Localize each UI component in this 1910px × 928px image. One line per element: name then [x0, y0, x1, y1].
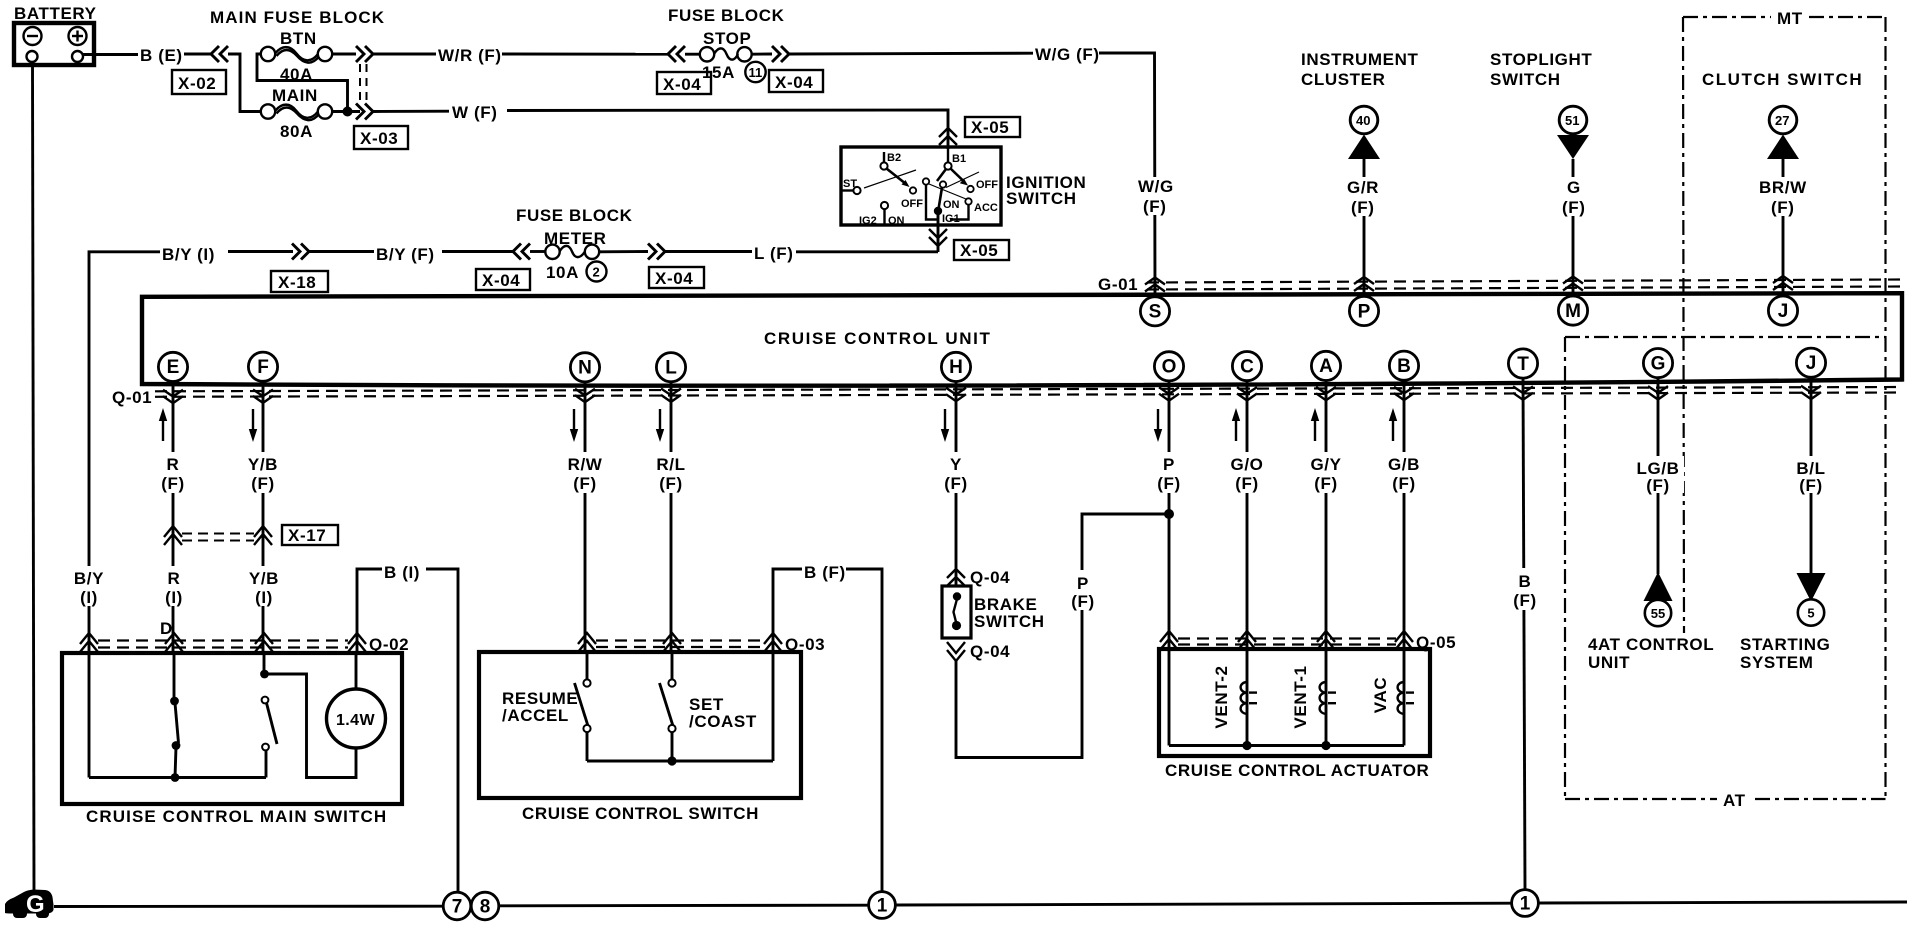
connector X-04 label right [649, 267, 704, 288]
pin O [1154, 352, 1183, 381]
svg-text:BTN: BTN [280, 29, 317, 48]
SECTION: main switch [62, 560, 458, 891]
svg-text:Q-01: Q-01 [112, 388, 152, 407]
node IG1 [934, 207, 960, 225]
svg-text:OFF: OFF [976, 179, 998, 191]
SECTION: columns below unit [69, 260, 1834, 890]
ground [5, 890, 54, 919]
svg-text:(I): (I) [165, 588, 183, 607]
svg-text:L: L [665, 358, 677, 379]
svg-text:OFF: OFF [901, 198, 923, 210]
svg-text:X-04: X-04 [482, 271, 520, 290]
MT box dash-dot [1683, 9, 1886, 633]
wire B(E) to fuses [228, 54, 261, 112]
contact mid-left [923, 178, 929, 184]
svg-text:G/O: G/O [1231, 455, 1264, 474]
svg-text:(F): (F) [1235, 474, 1259, 493]
pin C [1232, 352, 1261, 381]
node P (F) label [1153, 452, 1185, 493]
node B(I) label [382, 560, 426, 582]
node G/Y (F) label [1307, 452, 1346, 493]
svg-text:IG1: IG1 [942, 213, 960, 225]
SECTION: brake switch [942, 514, 1169, 758]
svg-text:(F): (F) [161, 474, 185, 493]
arrow down N [570, 409, 578, 442]
svg-text:G/Y: G/Y [1310, 455, 1341, 474]
brake switch contacts [952, 592, 961, 630]
arrow up B [1389, 408, 1397, 441]
wire actuator bus [1169, 744, 1404, 747]
connector X-04 label left [657, 72, 711, 94]
wire B/Y(I) corner [89, 252, 162, 260]
node W(F) label [449, 101, 507, 122]
pin J bottom [1796, 348, 1825, 377]
wire to L(F) [665, 250, 754, 253]
connector Q-04 chevron bottom [947, 642, 965, 661]
node R/W (F) label [566, 452, 605, 493]
SECTION: right top columns [1098, 9, 1902, 633]
node B(E) label [138, 44, 184, 65]
svg-text:MAIN FUSE BLOCK: MAIN FUSE BLOCK [210, 8, 385, 27]
SECTION: cruise switch [479, 560, 882, 891]
node R/L (F) label [652, 452, 691, 493]
svg-text:CLUSTER: CLUSTER [1301, 70, 1385, 89]
connector chevron H at Q-01 [946, 388, 966, 401]
svg-text:8: 8 [480, 897, 491, 918]
node W/G(F) label [1033, 43, 1100, 64]
wire O into actuator [1168, 651, 1171, 746]
svg-text:(F): (F) [573, 474, 597, 493]
connector chevron A at Q-01 [1316, 387, 1336, 400]
svg-text:(I): (I) [255, 588, 273, 607]
wire BTN output [332, 53, 356, 56]
wire brake switch to P line [956, 610, 1082, 758]
arrow down O [1154, 409, 1162, 442]
terminal IG2 [859, 202, 905, 227]
svg-text:ON: ON [888, 215, 905, 227]
pin N [570, 353, 599, 382]
cruise control actuator box [1159, 649, 1430, 756]
svg-text:X-04: X-04 [775, 73, 813, 92]
svg-text:4AT CONTROL: 4AT CONTROL [1588, 635, 1714, 654]
wire B/Y inside box [88, 653, 91, 778]
label IGNITION SWITCH [1006, 173, 1086, 208]
fuse BTN 40A [261, 29, 332, 84]
pin G [1643, 349, 1672, 378]
fuse number 11 [745, 62, 765, 82]
wire W/R to label [373, 53, 438, 56]
node G/B (F) label [1385, 452, 1424, 493]
harness Q-05 dashed [1178, 637, 1396, 639]
svg-text:VENT-2: VENT-2 [1212, 665, 1231, 728]
connector chevron J at Q-01 [1801, 386, 1821, 399]
junction node [343, 107, 353, 117]
svg-text:MAIN: MAIN [272, 86, 318, 105]
wire ON path [926, 185, 938, 220]
guide line B1 fan [929, 184, 966, 199]
svg-text:(F): (F) [1646, 476, 1670, 495]
node L(F) label [752, 241, 796, 263]
wire battery negative to ground [33, 65, 35, 894]
contact ACC [965, 198, 998, 214]
svg-text:B (F): B (F) [804, 563, 846, 582]
guide line B2 area [864, 170, 916, 188]
wire pin J down [1810, 377, 1813, 574]
terminal ST [841, 178, 861, 194]
wire B(F) into box [772, 652, 775, 761]
node W/G (F) column label [1136, 177, 1176, 216]
svg-text:N: N [578, 358, 592, 379]
connector chevron B at Q-01 [1394, 387, 1414, 400]
junction node VENT-2 [1242, 741, 1251, 750]
svg-text:B: B [1397, 356, 1411, 377]
svg-text:X-05: X-05 [971, 118, 1009, 137]
svg-text:55: 55 [1651, 606, 1665, 621]
svg-text:(F): (F) [659, 474, 683, 493]
wire IG1 down [937, 211, 940, 252]
svg-text:STARTING: STARTING [1740, 635, 1830, 654]
pin M [1558, 296, 1587, 325]
svg-text:SWITCH: SWITCH [1006, 189, 1077, 208]
switch SET/COAST [660, 652, 757, 761]
connector X-03 chevron lower [356, 104, 373, 120]
SECTION: cruise control unit [112, 293, 1902, 407]
wire pin N down [584, 382, 587, 652]
wire pin C down [1246, 380, 1249, 684]
svg-text:BATTERY: BATTERY [14, 4, 97, 23]
svg-text:X-18: X-18 [278, 273, 316, 292]
terminal B1 [944, 147, 966, 170]
stoplight switch [1490, 50, 1592, 296]
connector chevron left [513, 244, 530, 260]
svg-text:E: E [167, 357, 180, 378]
harness Q-03 dashed [596, 639, 764, 641]
starting system arrow [1740, 573, 1830, 672]
svg-text:2: 2 [593, 265, 600, 280]
connector chevron B/Y at Q-02 [80, 633, 98, 652]
pin F [248, 352, 277, 381]
wire W(F) from X-03 [373, 110, 451, 113]
svg-text:R/L: R/L [656, 455, 685, 474]
svg-text:H: H [949, 357, 963, 378]
blade B2 to OFF [887, 169, 924, 211]
contact under B1 [940, 181, 946, 187]
svg-text:SWITCH: SWITCH [1490, 70, 1561, 89]
connector chevron BR/W at G-01 [1773, 276, 1793, 290]
wire P branch from junction [1082, 514, 1169, 570]
svg-text:Q-04: Q-04 [970, 642, 1010, 661]
coil VAC [1371, 677, 1414, 746]
connector circle 8 [471, 892, 499, 920]
connector X-05 chevron bottom [929, 229, 947, 246]
connector chevron C at Q-01 [1237, 387, 1257, 400]
pin L [656, 353, 685, 382]
connector chevron F at Q-01 [253, 390, 273, 403]
connector chevron O at Q-05 [1160, 631, 1178, 650]
svg-text:F: F [257, 357, 269, 378]
svg-text:AT: AT [1723, 791, 1746, 810]
svg-text:G/B: G/B [1388, 455, 1420, 474]
wire pin E down [172, 381, 175, 653]
pin A [1311, 351, 1340, 380]
connector chevron L at Q-03 [663, 633, 681, 652]
svg-text:B/Y (I): B/Y (I) [162, 245, 215, 264]
svg-text:C: C [1240, 356, 1254, 377]
svg-text:G-01: G-01 [1098, 275, 1138, 294]
svg-text:CRUISE CONTROL ACTUATOR: CRUISE CONTROL ACTUATOR [1165, 761, 1429, 780]
blade B1 to OFF right [951, 169, 999, 193]
arrow up A [1311, 408, 1319, 441]
4AT control unit arrow [1588, 572, 1714, 672]
connector circle 7 [443, 892, 471, 920]
connector chevron right [772, 46, 789, 62]
coil VENT-2 [1212, 665, 1257, 745]
wire B(I) right branch to circle 7 [426, 569, 458, 891]
svg-text:CLUTCH SWITCH: CLUTCH SWITCH [1702, 70, 1863, 89]
svg-text:Y/B: Y/B [249, 569, 279, 588]
svg-text:G: G [1567, 178, 1581, 197]
wire bus mid [499, 904, 868, 907]
node B/L (F) label [1788, 456, 1834, 495]
node G/O (F) label [1228, 452, 1267, 493]
connector chevron right [648, 244, 665, 260]
connector circle 1 left [869, 892, 896, 919]
wire fuse to chevron [599, 250, 648, 253]
connector X-03 label [354, 126, 408, 149]
svg-text:X-03: X-03 [360, 129, 398, 148]
blade to IG1 [939, 188, 943, 210]
wire B(E) to connector [184, 53, 212, 56]
node B/Y(F) label [374, 243, 442, 264]
svg-text:B (I): B (I) [384, 563, 420, 582]
wire L(F) to ignition [796, 250, 938, 253]
pin P [1349, 296, 1378, 325]
connector chevron T at Q-01 [1513, 386, 1533, 399]
svg-text:SYSTEM: SYSTEM [1740, 653, 1814, 672]
SECTION: meter fuse row [89, 206, 938, 292]
svg-text:1: 1 [877, 896, 888, 917]
cruise control main switch box [62, 653, 402, 804]
ignition switch box [841, 147, 1001, 225]
svg-text:CRUISE CONTROL MAIN SWITCH: CRUISE CONTROL MAIN SWITCH [86, 807, 387, 826]
harness G-01 dashed lines [1147, 280, 1902, 283]
svg-text:M: M [1565, 301, 1581, 322]
svg-text:5: 5 [1807, 606, 1814, 621]
arrow down H [941, 409, 949, 442]
connector X-05 chevron top [939, 128, 957, 145]
SECTION: at-box [1565, 337, 1886, 810]
connector X-04 label right [769, 70, 823, 92]
svg-text:40: 40 [1356, 113, 1370, 128]
connector chevron B at Q-05 [1395, 631, 1413, 650]
svg-text:27: 27 [1775, 113, 1789, 128]
wire pin F down [262, 381, 265, 653]
wire pin B down [1403, 380, 1406, 684]
connector X-17 chevron R [164, 526, 182, 545]
node B/Y(I) label [160, 243, 228, 264]
connector chevron G at Q-01 [1648, 386, 1668, 399]
svg-text:B1: B1 [952, 153, 966, 165]
AT box dash-dot [1565, 337, 1886, 810]
connector chevron left [668, 46, 685, 62]
svg-text:/ACCEL: /ACCEL [502, 706, 569, 725]
svg-text:A: A [1319, 356, 1333, 377]
svg-text:X-04: X-04 [663, 75, 701, 94]
wire W/R label to stop fuse [502, 53, 668, 56]
svg-text:Q-04: Q-04 [970, 568, 1010, 587]
node B/Y (I) label [69, 566, 109, 607]
svg-text:W/G (F): W/G (F) [1035, 45, 1100, 64]
svg-text:B2: B2 [887, 152, 901, 164]
svg-text:(F): (F) [1562, 198, 1586, 217]
svg-text:R: R [167, 455, 180, 474]
connector chevron O at Q-01 [1159, 387, 1179, 400]
connector X-17 chevron Y/B [254, 526, 272, 545]
connector X-17 dashed [182, 533, 254, 535]
node Y/B (F) label [244, 452, 283, 493]
connector chevron W/G at G-01 [1145, 278, 1165, 292]
wire pin G down [1657, 377, 1660, 574]
svg-text:X-04: X-04 [655, 269, 693, 288]
svg-text:(F): (F) [1071, 592, 1095, 611]
connector chevron L at Q-01 [661, 389, 681, 402]
wire bus mid-right [896, 903, 1512, 905]
svg-text:(F): (F) [944, 474, 968, 493]
svg-text:(F): (F) [1157, 474, 1181, 493]
connector chevron C at Q-05 [1238, 631, 1256, 650]
svg-text:SWITCH: SWITCH [974, 612, 1045, 631]
junction node bus [667, 756, 676, 765]
wire [530, 250, 546, 253]
connector chevron G/R at G-01 [1354, 277, 1374, 291]
svg-text:CRUISE CONTROL SWITCH: CRUISE CONTROL SWITCH [522, 804, 759, 823]
cruise control switch box [479, 652, 801, 798]
connector X-02 label [172, 70, 226, 94]
svg-text:(F): (F) [1351, 198, 1375, 217]
svg-text:/COAST: /COAST [689, 712, 757, 731]
svg-text:STOP: STOP [703, 29, 751, 48]
svg-text:(F): (F) [1314, 474, 1338, 493]
wire internal bus left [89, 776, 266, 779]
connector X-04 label left [476, 269, 530, 290]
svg-text:B/Y (F): B/Y (F) [376, 245, 435, 264]
svg-text:51: 51 [1565, 113, 1579, 128]
junction node VENT-1 [1321, 741, 1330, 750]
fuse STOP 15A [700, 47, 752, 82]
wire pin O down [1168, 381, 1171, 651]
connector chevron Y/B at Q-02 [255, 633, 273, 652]
arrow up C [1232, 408, 1240, 441]
SECTION: stop fuse row [657, 6, 1155, 297]
node W/R(F) label [436, 44, 502, 65]
svg-text:W/R (F): W/R (F) [438, 46, 502, 65]
connector X-18 chevron [292, 244, 309, 260]
wire ground bus left [54, 905, 443, 908]
svg-text:INSTRUMENT: INSTRUMENT [1301, 50, 1418, 69]
svg-text:MT: MT [1777, 9, 1803, 28]
switch R contacts [170, 653, 180, 782]
connector X-05 label top [965, 117, 1020, 137]
wire B(E) from battery [83, 53, 140, 56]
wire to fuse [685, 53, 700, 56]
connector X-18 label [271, 271, 328, 292]
battery [14, 4, 97, 65]
svg-text:B: B [1519, 572, 1532, 591]
svg-text:S: S [1149, 302, 1162, 323]
svg-text:P: P [1163, 455, 1175, 474]
svg-text:O: O [1162, 357, 1177, 378]
connector X-05 label bottom [954, 240, 1009, 260]
svg-text:UNIT: UNIT [1588, 653, 1630, 672]
connector X-03 chevron upper [356, 46, 373, 62]
node P (F) label x1082 [1066, 568, 1098, 611]
svg-text:(F): (F) [1392, 474, 1416, 493]
node R (F) label [155, 452, 192, 493]
svg-text:VENT-1: VENT-1 [1291, 665, 1310, 728]
wire B(I) [357, 569, 384, 653]
svg-text:11: 11 [749, 65, 763, 80]
svg-text:FUSE BLOCK: FUSE BLOCK [516, 206, 633, 225]
clutch switch [1702, 70, 1863, 296]
node LG/B (F) label [1632, 456, 1684, 495]
svg-text:Y: Y [950, 455, 962, 474]
svg-text:ON: ON [943, 199, 960, 211]
connector circle 1 right [1512, 890, 1539, 917]
svg-text:STOPLIGHT: STOPLIGHT [1490, 50, 1592, 69]
fuse METER 10A [545, 245, 599, 282]
svg-text:R: R [168, 569, 181, 588]
connector chevron G at G-01 [1563, 277, 1583, 291]
switch Y/B contacts [260, 653, 277, 778]
wire MAIN fuse output to junction [332, 110, 360, 113]
SECTION: ignition switch [841, 117, 1086, 260]
wire lamp top [355, 653, 358, 689]
svg-text:1.4W: 1.4W [336, 712, 375, 729]
svg-text:40A: 40A [280, 65, 313, 84]
SECTION: bottom ground bus [5, 890, 1907, 920]
svg-text:(I): (I) [80, 588, 98, 607]
pin T [1508, 349, 1537, 378]
pin H [941, 352, 970, 381]
svg-text:(F): (F) [1771, 198, 1795, 217]
switch RESUME/ACCEL [502, 652, 591, 761]
svg-text:VAC: VAC [1371, 677, 1390, 713]
arrow down F [249, 409, 257, 442]
svg-text:L (F): L (F) [754, 244, 794, 263]
wire to B/Y(F) [309, 250, 376, 253]
connector X-02 chevron [211, 46, 228, 62]
SECTION: top-left battery and main fuse block [14, 4, 948, 894]
pin J top [1768, 296, 1797, 325]
pin E [158, 352, 187, 381]
svg-text:J: J [1806, 353, 1817, 374]
harness Q-01 dashed lines [155, 387, 1902, 391]
svg-text:G/R: G/R [1347, 178, 1379, 197]
node R (I) label [157, 566, 192, 607]
pin B [1389, 351, 1418, 380]
harness Q-02 dashed [98, 639, 348, 641]
node Y/B (I) label [244, 566, 284, 607]
connector chevron N at Q-03 [578, 633, 596, 652]
svg-text:(F): (F) [1513, 591, 1537, 610]
wire to meter fuse [442, 250, 514, 253]
connector chevron E at Q-01 [163, 390, 183, 403]
svg-text:P: P [1358, 301, 1371, 322]
arrow down L [656, 409, 664, 442]
wire to chevron [228, 250, 293, 253]
svg-text:10A: 10A [546, 263, 579, 282]
svg-text:J: J [1778, 301, 1789, 322]
